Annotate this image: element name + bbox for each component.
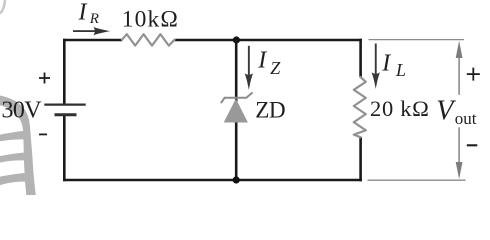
wire right branch upper bbox=[359, 39, 362, 77]
resistor R1 10kOhm (horizontal zigzag) bbox=[122, 34, 175, 45]
zener cathode bar with hooks bbox=[221, 93, 253, 104]
svg-text:30V: 30V bbox=[2, 98, 43, 124]
wire bottom (node B) bbox=[63, 179, 362, 182]
wire top right segment (node A) bbox=[174, 39, 362, 42]
junction dot top (node A) bbox=[233, 36, 240, 43]
Vout leader line top bbox=[369, 39, 465, 41]
watermark corner arc (top-left decorative) bbox=[0, 0, 5, 14]
resistor R2 20kOhm (vertical zigzag) bbox=[354, 77, 366, 137]
zener diode ZD bbox=[221, 93, 253, 123]
svg-text:R: R bbox=[89, 11, 99, 27]
svg-text:Z: Z bbox=[270, 58, 281, 78]
svg-text:20 kΩ: 20 kΩ bbox=[370, 96, 430, 121]
battery + sign bbox=[39, 73, 50, 84]
current arrow I_L bbox=[372, 44, 381, 90]
wire top left segment (node A) bbox=[63, 39, 122, 42]
battery plate long (+) bbox=[44, 103, 85, 105]
svg-text:10kΩ: 10kΩ bbox=[122, 7, 179, 33]
svg-text:I: I bbox=[78, 0, 88, 26]
svg-text:I: I bbox=[257, 48, 267, 74]
plus sign (Vout +) bbox=[467, 68, 480, 81]
current arrow I_R bbox=[73, 27, 110, 35]
wire left upper (battery + to top) bbox=[63, 39, 66, 105]
wire right branch lower bbox=[359, 137, 362, 181]
current arrow I_Z bbox=[245, 46, 254, 90]
svg-text:V: V bbox=[436, 96, 456, 127]
Vout leader line bottom bbox=[368, 179, 466, 181]
svg-text:ZD: ZD bbox=[255, 98, 285, 124]
svg-text:L: L bbox=[395, 60, 406, 80]
battery source 30V bbox=[44, 105, 85, 115]
battery plate short (-) bbox=[55, 113, 77, 116]
junction dot bottom (node B) bbox=[233, 176, 240, 183]
watermark gray ribbon (bottom-left decorative) bbox=[0, 96, 36, 196]
battery - sign bbox=[39, 133, 47, 135]
minus sign (Vout -) bbox=[467, 144, 478, 146]
svg-text:out: out bbox=[455, 109, 477, 128]
wire zener branch bbox=[235, 40, 238, 180]
svg-text:I: I bbox=[381, 51, 391, 77]
Vout dimension arrow line bbox=[456, 41, 463, 180]
wire left lower (battery - to bottom) bbox=[63, 115, 66, 182]
zener anode triangle bbox=[224, 99, 248, 123]
